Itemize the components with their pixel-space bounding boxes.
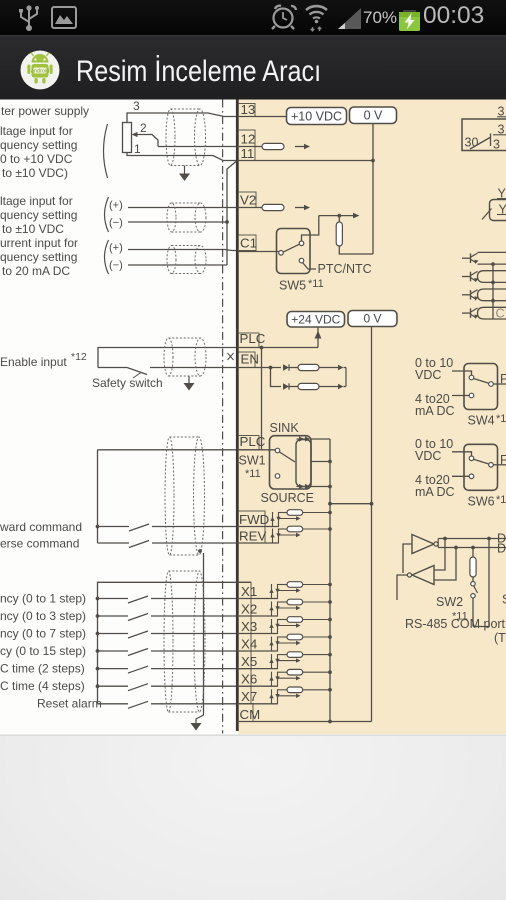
svg-text:SW4: SW4 (468, 414, 495, 428)
svg-text:EN: EN (241, 352, 259, 367)
svg-text:F: F (500, 372, 506, 386)
svg-text:to 20 mA DC: to 20 mA DC (2, 264, 70, 278)
svg-text:SINK: SINK (270, 421, 300, 435)
svg-text:X5: X5 (241, 654, 257, 669)
svg-text:11: 11 (241, 146, 255, 161)
svg-text:RS-485 COM port: RS-485 COM port (405, 617, 506, 631)
svg-text:C time (4 steps): C time (4 steps) (0, 679, 85, 693)
svg-text:ltage input for: ltage input for (0, 194, 73, 208)
svg-text:C time (2 steps): C time (2 steps) (0, 662, 85, 676)
svg-text:Reset alarm: Reset alarm (37, 697, 102, 711)
svg-text:VDC: VDC (415, 449, 441, 463)
svg-text:X6: X6 (241, 672, 257, 687)
svg-text:quency setting: quency setting (0, 250, 77, 264)
svg-text:CM: CM (240, 707, 261, 722)
svg-text:S: S (502, 593, 506, 607)
svg-text:X7: X7 (241, 689, 257, 704)
svg-text:*12: *12 (71, 351, 87, 363)
svg-text:2: 2 (140, 121, 147, 135)
svg-text:ltage input for: ltage input for (0, 124, 73, 138)
svg-text:13: 13 (241, 102, 256, 117)
svg-text:V2: V2 (240, 193, 256, 208)
svg-text:F: F (500, 453, 506, 467)
svg-text:cy (0 to 15 step): cy (0 to 15 step) (0, 644, 86, 658)
svg-text:X3: X3 (241, 619, 257, 634)
svg-text:SW6: SW6 (468, 494, 495, 508)
svg-text:ncy (0 to 7 step): ncy (0 to 7 step) (0, 627, 86, 641)
svg-text:FWD: FWD (239, 512, 269, 527)
svg-text:3: 3 (133, 99, 140, 113)
svg-text:(+): (+) (109, 242, 123, 254)
svg-text:(+): (+) (109, 200, 123, 212)
svg-text:SW5: SW5 (279, 279, 306, 293)
svg-text:ward command: ward command (0, 520, 82, 534)
svg-text:30: 30 (465, 136, 479, 150)
svg-text:Safety switch: Safety switch (92, 376, 163, 390)
svg-text:C1: C1 (240, 236, 257, 251)
svg-text:ter power supply: ter power supply (1, 104, 89, 118)
svg-text:*11: *11 (245, 468, 261, 480)
svg-text:+10 VDC: +10 VDC (291, 110, 342, 124)
svg-text:X2: X2 (241, 602, 257, 617)
svg-text:to ±10 VDC: to ±10 VDC (2, 222, 64, 236)
svg-text:Enable input: Enable input (0, 355, 67, 369)
svg-text:PLC: PLC (240, 331, 266, 346)
svg-text:SW2: SW2 (436, 595, 463, 609)
svg-text:erse command: erse command (0, 537, 79, 551)
svg-text:0 V: 0 V (363, 312, 381, 326)
svg-text:quency setting: quency setting (0, 208, 77, 222)
svg-text:(T: (T (494, 631, 506, 645)
svg-text:+24 VDC: +24 VDC (291, 313, 340, 327)
svg-text:12: 12 (241, 132, 256, 147)
svg-text:X4: X4 (241, 637, 257, 652)
svg-text:quency setting: quency setting (0, 138, 77, 152)
svg-text:1: 1 (134, 142, 141, 156)
svg-text:X1: X1 (241, 584, 257, 599)
svg-text:0 V: 0 V (364, 109, 383, 123)
svg-text:REV: REV (239, 529, 266, 544)
svg-text:0 to +10 VDC: 0 to +10 VDC (0, 152, 73, 166)
svg-text:PTC/NTC: PTC/NTC (318, 262, 372, 276)
svg-text:*11: *11 (308, 278, 324, 290)
svg-text:C: C (496, 307, 505, 321)
svg-text:mA DC: mA DC (415, 404, 455, 418)
svg-text:(−): (−) (109, 260, 123, 272)
svg-text:SW1: SW1 (239, 454, 266, 468)
svg-text:3: 3 (493, 138, 500, 152)
svg-text:SOURCE: SOURCE (261, 491, 314, 505)
svg-text:mA DC: mA DC (415, 485, 455, 499)
svg-text:to ±10 VDC): to ±10 VDC) (2, 166, 68, 180)
svg-text:(−): (−) (109, 217, 123, 229)
svg-text:urrent input for: urrent input for (0, 236, 78, 250)
svg-text:*1: *1 (496, 494, 506, 506)
svg-text:*1: *1 (496, 413, 506, 425)
svg-text:D: D (497, 542, 506, 556)
svg-text:ncy (0 to 1 step): ncy (0 to 1 step) (0, 592, 86, 606)
svg-text:ncy (0 to 3 step): ncy (0 to 3 step) (0, 609, 86, 623)
svg-text:VDC: VDC (415, 368, 441, 382)
